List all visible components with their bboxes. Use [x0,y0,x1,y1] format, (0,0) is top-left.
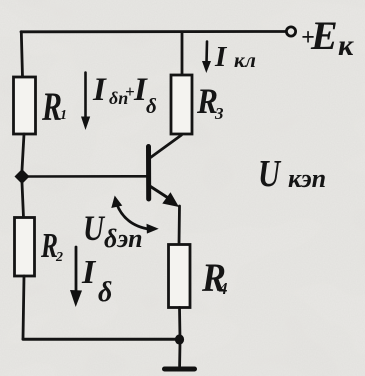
wire R1 bottom to base node [22,134,24,170]
wire base [28,175,147,178]
wire collector [151,135,182,158]
svg-text:I: I [214,41,228,73]
transistor VT1 base bar [146,147,151,200]
label U keh [258,153,326,195]
transistor VT1 emitter line [151,187,170,199]
label Ib [81,254,112,308]
label Ikl [214,41,256,73]
resistor R4 [169,245,191,308]
arrow Ikl current [202,42,211,74]
svg-text:I: I [92,72,107,108]
wire R4 bottom to ground node [178,308,181,340]
transistor VT1 emitter arrowhead [162,192,179,207]
wire ground stem [178,343,181,366]
svg-text:4: 4 [218,279,228,298]
svg-text:U: U [258,153,282,195]
resistor R3 [171,75,192,134]
wire node to R2 [22,183,24,218]
svg-text:кэп: кэп [288,164,326,193]
terminal +Ek circle [286,27,295,36]
resistor R2 [15,218,35,277]
label +Ek [301,13,354,62]
svg-text:3: 3 [214,104,224,123]
svg-text:δ: δ [146,94,157,118]
wire emitter to R4 [178,206,181,245]
svg-text:δэп: δэп [104,224,143,253]
label R1 [41,84,67,129]
label R3 [196,81,224,123]
arrow Ibp+Ib current [81,73,90,131]
svg-text:2: 2 [55,250,63,265]
svg-text:I: I [81,254,97,291]
resistor R1 [14,77,36,134]
svg-text:E: E [310,13,338,58]
ground [165,367,195,372]
label R4 [201,255,227,300]
svg-text:δ: δ [98,277,112,308]
svg-text:R: R [41,84,62,129]
label R2 [40,226,63,265]
wire left drop to R1 [21,32,22,77]
svg-text:U: U [83,208,106,248]
arrow Ib current [70,247,82,307]
wire R2 bottom to bottom rail [23,276,24,339]
label U beh [83,208,143,253]
svg-text:к: к [338,29,354,62]
wire top rail to R3 [181,33,184,75]
wire top rail [21,30,286,33]
svg-text:1: 1 [60,108,67,123]
svg-text:кл: кл [234,48,256,72]
arrow U beh double-headed arc [111,196,158,234]
wire bottom rail [23,338,177,341]
node A base junction diamond [15,169,30,184]
label Ibp+Ib [92,72,157,118]
node B emitter-ground junction dot [175,334,184,344]
